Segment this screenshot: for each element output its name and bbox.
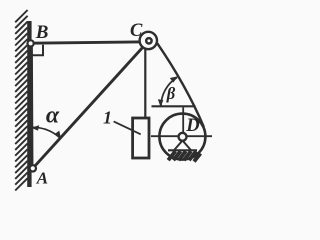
pulley C outer [140, 32, 157, 49]
bracket square at B [32, 45, 44, 56]
drum hub [179, 133, 187, 141]
drum vertical centerline [182, 107, 184, 133]
wall line [27, 21, 31, 187]
svg-text:B: B [35, 22, 49, 43]
svg-text:1: 1 [103, 108, 112, 128]
svg-text:A: A [36, 169, 48, 188]
brace AC [33, 41, 149, 168]
angle alpha arc with arrowheads [31, 125, 61, 139]
load 1 rectangle [133, 118, 149, 158]
rope from pulley down to load [144, 48, 146, 117]
pin B [28, 40, 34, 46]
angle beta arc with arrowheads [158, 76, 178, 107]
support triangle under drum hub [174, 141, 191, 151]
member AB (vertical bar along wall between pins A and B) [31, 42, 34, 168]
drum D outer circle [159, 114, 205, 160]
drum horizontal centerline [151, 135, 212, 137]
svg-text:D: D [185, 116, 199, 136]
svg-text:α: α [46, 102, 60, 128]
beam BC [31, 42, 149, 43]
leader line for label 1 [114, 121, 141, 134]
pin A [30, 165, 36, 171]
svg-text:β: β [166, 84, 176, 103]
pulley C hub [146, 38, 151, 43]
support baseline [168, 149, 197, 151]
rope from pulley C to drum D [157, 43, 204, 127]
ground hatching under support [168, 151, 200, 161]
beta horizontal reference line [152, 105, 196, 107]
wall hatching [15, 10, 27, 191]
